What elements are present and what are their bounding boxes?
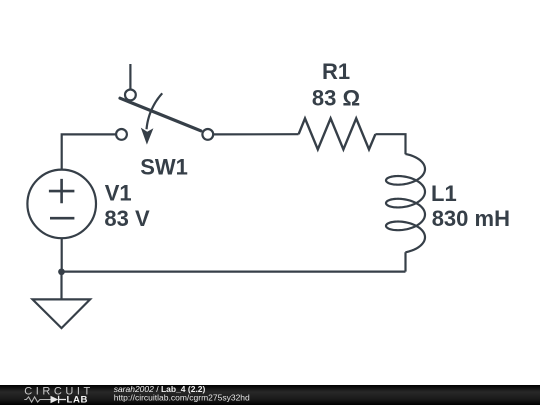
voltage source V1 plus sign — [49, 179, 75, 203]
voltage source V1 — [27, 170, 96, 239]
ground symbol — [33, 299, 91, 328]
wire V1 bottom stub — [61, 238, 63, 272]
voltage source V1 circle — [27, 170, 96, 239]
switch SW1 top terminal circle — [125, 90, 136, 101]
CircuitLab logo diode — [51, 396, 59, 404]
wire inductor bottom to bottom-right corner — [404, 252, 406, 271]
svg-text:V1: V1 — [105, 181, 132, 206]
switch SW1 — [116, 90, 213, 145]
wire from resistor to top-right corner and down to inductor — [375, 134, 405, 154]
junction node dot — [58, 268, 65, 275]
switch SW1 blade — [120, 98, 201, 131]
svg-text:LAB: LAB — [67, 395, 89, 405]
svg-text:L1: L1 — [431, 181, 457, 206]
svg-text:83 V: 83 V — [104, 206, 150, 231]
wire ground stub — [60, 272, 62, 300]
svg-text:http://circuitlab.com/cgrm275s: http://circuitlab.com/cgrm275sy32hd — [114, 393, 250, 403]
switch SW1 actuation arrow arc — [147, 93, 163, 129]
inductor L1 coil — [386, 154, 425, 252]
svg-text:83 Ω: 83 Ω — [312, 85, 360, 110]
svg-text:830 mH: 830 mH — [432, 206, 510, 231]
wire top stub above switch — [129, 64, 131, 89]
switch SW1 arrowhead — [141, 128, 154, 145]
wire from switch left throw to V1 top corner — [62, 134, 116, 169]
wire from switch right terminal to resistor — [213, 133, 298, 135]
resistor R1 zigzag — [299, 118, 376, 149]
svg-text:R1: R1 — [322, 59, 350, 84]
CircuitLab logo resistor zigzag — [24, 397, 50, 402]
footer bar — [0, 385, 540, 405]
voltage source V1 minus sign — [50, 217, 74, 220]
switch SW1 right common terminal circle — [202, 129, 213, 140]
switch SW1 left throw terminal circle — [116, 129, 127, 140]
wire bottom horizontal — [62, 271, 406, 273]
svg-text:SW1: SW1 — [140, 155, 188, 180]
